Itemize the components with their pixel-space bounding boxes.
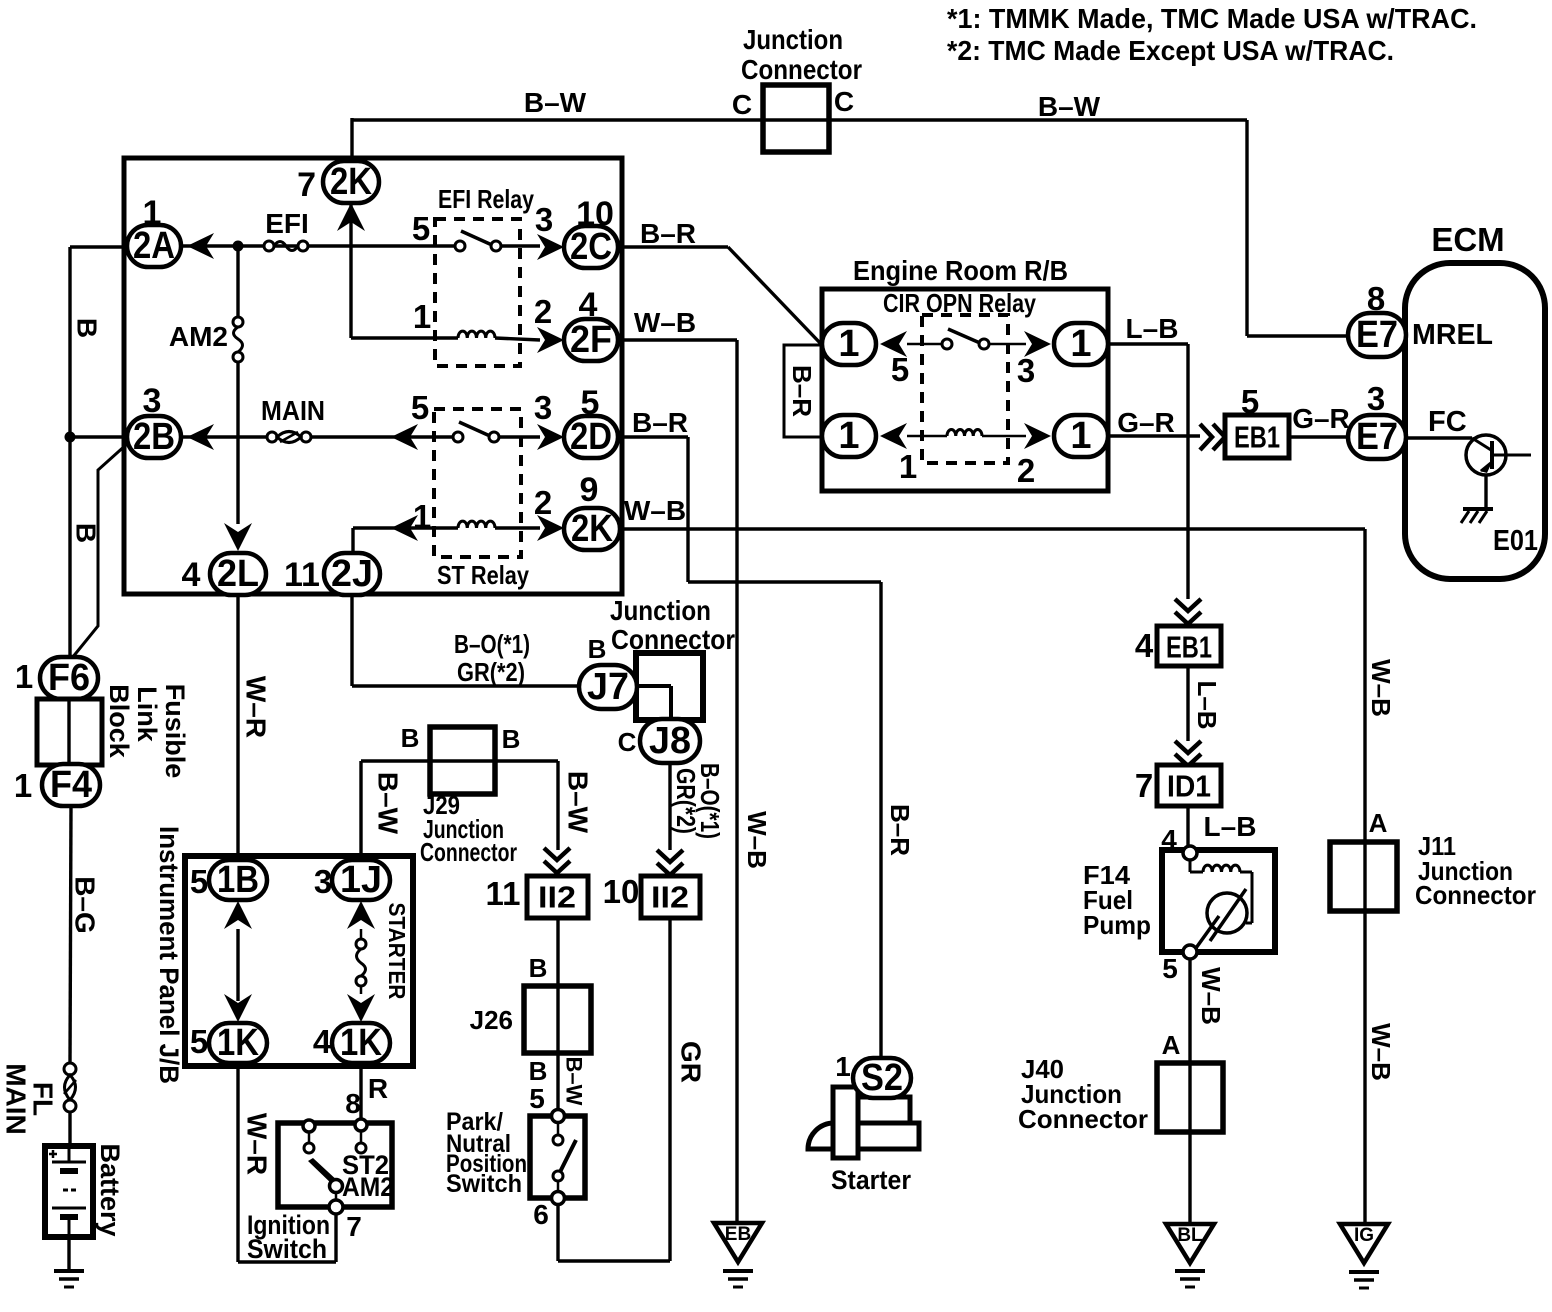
wire 2K9 to J11 chain (620, 527, 1365, 530)
svg-text:MAIN: MAIN (261, 395, 325, 426)
svg-text:Connector: Connector (1018, 1104, 1148, 1134)
arrow double chevron to ID1 (1175, 741, 1201, 766)
svg-text:1B: 1B (217, 859, 259, 901)
svg-text:B–W: B–W (373, 772, 404, 835)
svg-text:STARTER: STARTER (384, 903, 410, 1000)
engine room R/B box (822, 289, 1108, 491)
svg-text:Block: Block (104, 684, 134, 759)
svg-text:Fusible: Fusible (160, 684, 190, 779)
svg-text:EB1: EB1 (1234, 420, 1280, 455)
connector S2 (853, 1058, 911, 1098)
svg-text:B–W: B–W (1038, 91, 1101, 122)
svg-text:W–B: W–B (742, 811, 772, 869)
junction connector box C-C (763, 85, 829, 152)
svg-text:5: 5 (1162, 953, 1178, 984)
wire transistor emitter to E01 ground (1484, 475, 1487, 509)
svg-text:2A: 2A (133, 225, 175, 267)
svg-text:W–B: W–B (1196, 967, 1226, 1025)
wire FL MAIN to battery (68, 1112, 71, 1146)
svg-text:Instrument Panel J/B: Instrument Panel J/B (154, 826, 184, 1084)
ECM box (1405, 263, 1545, 579)
svg-text:5: 5 (411, 389, 429, 426)
svg-text:R: R (368, 1073, 388, 1104)
wire battery to ground (67, 1237, 70, 1271)
connector 2F (564, 319, 618, 361)
wire contact to 2D (499, 435, 540, 438)
ST relay coil (458, 521, 495, 528)
battery (45, 1146, 93, 1237)
arrow down to 2L (224, 523, 252, 551)
wire J8 down (668, 763, 671, 850)
connector II2 right (641, 876, 700, 918)
connector F4 (42, 764, 100, 806)
svg-text:1: 1 (838, 323, 859, 365)
svg-text:Switch: Switch (247, 1234, 327, 1264)
CIR OPN relay dashed box (922, 315, 1008, 463)
arrow left at 2A (187, 233, 214, 259)
svg-text:7: 7 (297, 166, 316, 204)
svg-text:EFI: EFI (265, 208, 309, 239)
svg-text:1K: 1K (217, 1022, 259, 1064)
connector 1 top-left (822, 323, 876, 365)
connector 1B (209, 860, 267, 900)
PNP pin 5 circle (552, 1110, 565, 1123)
fusible link block box (37, 699, 102, 765)
svg-text:Connector: Connector (741, 54, 862, 85)
wire J40 to BL ground (1188, 1132, 1191, 1224)
connector 1J (332, 860, 390, 900)
arrow right to 2D (537, 424, 564, 450)
wire 2A row (181, 244, 456, 247)
svg-text:B–R: B–R (885, 804, 915, 856)
svg-text:II2: II2 (651, 880, 689, 915)
svg-text:Connector: Connector (420, 837, 517, 867)
connector J7 (579, 665, 637, 709)
fusible link FL MAIN (64, 1063, 76, 1075)
connector ID1 (1157, 765, 1221, 806)
svg-text:CIR OPN Relay: CIR OPN Relay (883, 288, 1036, 318)
svg-text:B: B (502, 724, 521, 754)
svg-text:L–B: L–B (1126, 313, 1179, 344)
svg-text:W–B: W–B (624, 495, 686, 526)
arrow up below 1J (347, 901, 375, 929)
svg-text:AM2: AM2 (169, 321, 228, 352)
fuse MAIN fusible link (267, 432, 277, 442)
arrow left CIR bottom (880, 423, 907, 449)
PNP contact lower (553, 1171, 563, 1181)
junction connector J26 box (524, 986, 591, 1053)
wire 1B-1K (236, 929, 239, 1001)
svg-text:3: 3 (1367, 380, 1385, 417)
connector J8 (640, 719, 700, 763)
starter body (858, 1097, 910, 1123)
ground IG hatch (1349, 1270, 1379, 1274)
svg-text:8: 8 (345, 1088, 361, 1119)
arrow left before ST contact (391, 424, 418, 450)
svg-text:E7: E7 (1356, 314, 1398, 356)
svg-text:B–W: B–W (524, 87, 587, 118)
svg-text:2C: 2C (570, 226, 612, 268)
wire II2-10 to PNP pin6 (668, 918, 671, 1261)
svg-text:W–B: W–B (1366, 1023, 1396, 1081)
arrow right to 2C (537, 234, 564, 260)
fuel pump F14 (1162, 850, 1275, 952)
label box B-R (784, 345, 821, 437)
junction dot B (65, 432, 76, 443)
svg-text:Engine Room R/B: Engine Room R/B (853, 255, 1068, 286)
svg-text:1: 1 (838, 415, 859, 457)
svg-text:C: C (732, 89, 752, 120)
fuse/relay block box (124, 158, 622, 594)
svg-text:*2: TMC Made Except USA w/TRAC: *2: TMC Made Except USA w/TRAC. (947, 35, 1394, 66)
svg-text:B: B (529, 1056, 548, 1086)
svg-text:A: A (1369, 808, 1388, 838)
svg-text:F4: F4 (50, 764, 92, 806)
ground triangle EB (714, 1223, 762, 1262)
svg-text:B–R: B–R (632, 407, 688, 438)
ground triangle IG (1340, 1224, 1388, 1263)
svg-text:Pump: Pump (1083, 910, 1151, 940)
svg-text:J8: J8 (649, 720, 691, 762)
junction dot AM2 branch (233, 241, 244, 252)
junction connector J7/J8 box (636, 653, 703, 720)
connector 1 bottom-left (822, 415, 876, 457)
ground E01 hatch (1463, 507, 1493, 511)
svg-text:C: C (834, 86, 854, 117)
wire dot to 2B (70, 435, 128, 438)
svg-text:2K: 2K (571, 508, 613, 550)
connector 1 top-right (1054, 323, 1108, 365)
ST relay contact (453, 432, 463, 442)
svg-text:6: 6 (533, 1199, 549, 1230)
svg-text:MREL: MREL (1412, 319, 1493, 351)
wire 2J to ST coil (351, 528, 354, 555)
svg-text:B: B (401, 723, 420, 753)
ground EB hatch (723, 1269, 753, 1273)
svg-text:B: B (71, 523, 102, 543)
svg-text:EB1: EB1 (1166, 630, 1212, 665)
svg-text:W–R: W–R (242, 1113, 273, 1175)
arrow up below 1B (224, 901, 252, 929)
svg-text:B–W: B–W (562, 1057, 587, 1106)
svg-text:10: 10 (603, 873, 640, 910)
svg-text:MAIN: MAIN (1, 1063, 32, 1135)
svg-text:S2: S2 (861, 1057, 903, 1099)
ignition pivot to pin7 (330, 1180, 343, 1193)
wire contact to oval (989, 343, 1026, 346)
svg-text:4: 4 (1135, 627, 1154, 664)
PNP blade (560, 1140, 576, 1172)
svg-text:2F: 2F (570, 319, 612, 361)
connector 1K left (209, 1023, 267, 1063)
connector 2L (210, 553, 266, 595)
svg-text:Battery: Battery (95, 1143, 125, 1236)
svg-text:3: 3 (1017, 352, 1035, 389)
svg-text:II2: II2 (538, 880, 576, 915)
svg-text:1J: 1J (340, 859, 382, 901)
svg-text:2B: 2B (133, 416, 175, 458)
svg-text:2L: 2L (217, 553, 259, 595)
svg-text:2D: 2D (570, 416, 612, 458)
wire 2B row (181, 435, 456, 438)
ignition blade (308, 1158, 340, 1188)
svg-text:BL: BL (1177, 1225, 1203, 1246)
svg-text:1: 1 (835, 1051, 851, 1082)
svg-text:B: B (529, 953, 548, 983)
svg-text:E01: E01 (1493, 525, 1538, 557)
svg-text:B–R: B–R (787, 365, 817, 417)
svg-text:1: 1 (15, 658, 33, 695)
PNP contact upper (557, 1122, 560, 1136)
svg-text:FC: FC (1428, 406, 1467, 438)
svg-text:B–O(*1): B–O(*1) (454, 629, 530, 659)
wire to contact (907, 343, 944, 346)
arrow up to 2K (337, 203, 365, 231)
EFI relay coil (458, 331, 495, 338)
svg-text:EB: EB (725, 1224, 751, 1245)
svg-text:1: 1 (899, 448, 917, 485)
wire B-W left segment (352, 118, 829, 121)
svg-text:L–B: L–B (1192, 680, 1222, 729)
wire 2C to Engine Room R/B diagonal (618, 245, 728, 248)
PNP pin 6 circle (552, 1192, 565, 1205)
svg-text:IG: IG (1354, 1225, 1374, 1246)
svg-text:B–G: B–G (70, 876, 101, 934)
wire 2J to J7 (350, 594, 353, 686)
connector E7 FC (1348, 415, 1406, 459)
svg-text:EFI Relay: EFI Relay (438, 184, 534, 214)
svg-text:W–B: W–B (1366, 659, 1396, 717)
svg-text:*1: TMMK Made, TMC Made USA w/: *1: TMMK Made, TMC Made USA w/TRAC. (947, 3, 1477, 34)
arrow right CIR top (1024, 331, 1051, 357)
svg-text:GR: GR (676, 1041, 707, 1083)
wire EB1 to E7 FC (1289, 435, 1350, 438)
wire G-R row (1108, 434, 1200, 437)
svg-text:2J: 2J (331, 553, 373, 595)
svg-text:F6: F6 (48, 657, 90, 699)
arrow double chevron to II2-11 (544, 848, 570, 873)
svg-text:7: 7 (1135, 767, 1153, 804)
wire to coil (907, 435, 947, 438)
connector E7 MREL (1348, 313, 1406, 357)
junction connector J11 box (1330, 842, 1397, 911)
wire 2K to EFI relay coil (349, 202, 352, 338)
svg-text:G–R: G–R (1117, 407, 1175, 438)
arrow right CIR bottom (1024, 423, 1051, 449)
fuse AM2 (236, 251, 239, 318)
svg-text:3: 3 (314, 863, 332, 900)
wire coil to oval (982, 435, 1026, 438)
wire AM2 to 2L (236, 362, 239, 524)
wire coil to 2K9 (495, 526, 540, 529)
wire F4 to FL MAIN (70, 806, 71, 1063)
svg-text:ECM: ECM (1431, 221, 1504, 258)
svg-text:Link: Link (132, 686, 162, 742)
CIR OPN relay coil (947, 429, 982, 436)
svg-text:11: 11 (284, 556, 320, 594)
wire EB1-4 to ID1 (1186, 666, 1189, 741)
EFI relay contact (455, 241, 465, 251)
junction connector J29 box (430, 727, 495, 794)
wire coil to 2F (495, 338, 540, 340)
svg-text:2: 2 (1017, 452, 1035, 489)
ignition switch box (278, 1123, 392, 1207)
svg-text:J7: J7 (587, 666, 629, 708)
svg-text:5: 5 (190, 1023, 208, 1060)
svg-text:W–R: W–R (241, 676, 272, 738)
svg-text:B: B (588, 634, 607, 664)
svg-text:3: 3 (534, 389, 552, 426)
ground triangle BL (1166, 1224, 1214, 1263)
park/neutral position switch box (530, 1116, 585, 1198)
arrow right to 2K9 (537, 515, 564, 541)
svg-text:L–B: L–B (1204, 811, 1257, 842)
wire 2D to S2 via corners (618, 435, 688, 438)
connector 1 bottom-right (1054, 415, 1108, 457)
wire 1K4 to ignition pin8 (359, 1064, 362, 1120)
connector 2B (127, 416, 181, 458)
svg-text:4: 4 (182, 556, 201, 594)
fuse STARTER (360, 929, 363, 939)
svg-text:2: 2 (534, 484, 552, 521)
wire 2B branch diagonal (72, 444, 127, 658)
svg-text:G–R: G–R (1292, 403, 1350, 434)
connector 1K right (332, 1023, 390, 1063)
wire pump to J40 (1188, 959, 1191, 1132)
wire 1K5 to ignition pin7 (236, 1064, 239, 1262)
wire II2-11 to PNP (556, 918, 559, 1110)
svg-text:4: 4 (313, 1023, 332, 1060)
arrow down above 1K right (347, 994, 375, 1022)
svg-text:J26: J26 (470, 1005, 513, 1035)
connector 2A (127, 225, 181, 267)
svg-text:E7: E7 (1356, 416, 1398, 458)
arrow left at ST coil (391, 515, 418, 541)
ground BL hatch (1175, 1269, 1205, 1273)
svg-text:B–R: B–R (640, 218, 696, 249)
svg-text:GR(*2): GR(*2) (457, 657, 525, 687)
arrow right to 2F (537, 327, 564, 353)
svg-text:1: 1 (1070, 415, 1091, 457)
svg-text:1K: 1K (340, 1022, 382, 1064)
transistor FC driver (1406, 436, 1472, 439)
svg-text:2K: 2K (330, 161, 372, 203)
svg-text:5: 5 (190, 863, 208, 900)
svg-text:AM2: AM2 (342, 1172, 394, 1202)
svg-text:1: 1 (14, 767, 32, 804)
svg-text:Starter: Starter (831, 1165, 911, 1195)
connector 2D (564, 416, 618, 458)
svg-text:2: 2 (534, 293, 552, 330)
arrow left at 2B (187, 424, 214, 450)
wire 1J to J29 to II2-11 (359, 761, 362, 862)
arrow double chevron to II2-10 (657, 850, 683, 875)
ground battery (54, 1269, 84, 1273)
wire 2A to F6 (70, 245, 127, 248)
svg-text:B–W: B–W (563, 771, 594, 834)
svg-text:Connector: Connector (1415, 880, 1536, 910)
svg-text:1: 1 (413, 498, 431, 535)
connector F6 (40, 657, 98, 699)
wire ID1 to fuel pump (1186, 806, 1189, 848)
svg-text:7: 7 (346, 1211, 362, 1242)
svg-text:Junction: Junction (610, 595, 711, 626)
svg-text:9: 9 (580, 471, 599, 509)
wire 2L to 1B (236, 594, 239, 862)
ignition pin AM1 (303, 1120, 315, 1132)
fuse EFI (264, 241, 274, 251)
wire contact to 2C (501, 244, 540, 247)
connector EB1-5 (1225, 415, 1289, 458)
EFI relay dashed box (435, 219, 520, 366)
svg-text:Switch: Switch (446, 1170, 522, 1198)
connector 2K row9 (564, 508, 620, 550)
svg-text:W–B: W–B (634, 307, 696, 338)
svg-text:3: 3 (535, 201, 553, 238)
ignition pin ST2 contact (355, 1119, 367, 1131)
connector 2C (564, 226, 618, 268)
svg-text:B: B (72, 318, 103, 338)
svg-text:1: 1 (413, 298, 431, 335)
svg-text:5: 5 (412, 210, 430, 247)
instrument panel J/B box (185, 856, 413, 1066)
connector 2J (324, 553, 380, 595)
arrow down above 1K (224, 994, 252, 1022)
wire 2F to EB ground (618, 338, 737, 341)
svg-text:5: 5 (529, 1083, 545, 1114)
junction connector J40 box (1157, 1063, 1223, 1132)
wire B-W right segment (829, 118, 1247, 121)
svg-text:C: C (618, 727, 637, 757)
ST relay dashed box (434, 409, 521, 557)
svg-text:1: 1 (1070, 323, 1091, 365)
svg-text:11: 11 (486, 875, 521, 912)
connector EB1-4 (1157, 626, 1221, 666)
arrow double chevron to EB1-5 (1200, 424, 1225, 450)
svg-text:ID1: ID1 (1167, 769, 1211, 804)
wire L-B to EB1-4 (1108, 342, 1188, 345)
svg-text:A: A (1162, 1030, 1181, 1060)
svg-text:5: 5 (891, 351, 909, 388)
svg-text:Junction: Junction (743, 24, 843, 55)
svg-text:ST Relay: ST Relay (437, 560, 529, 590)
arrow left CIR top (880, 331, 907, 357)
arrow double chevron to EB1-4 (1175, 599, 1201, 624)
svg-text:B–O(*1): B–O(*1) (695, 763, 725, 839)
connector II2 left (527, 876, 588, 918)
CIR OPN contact (942, 339, 952, 349)
